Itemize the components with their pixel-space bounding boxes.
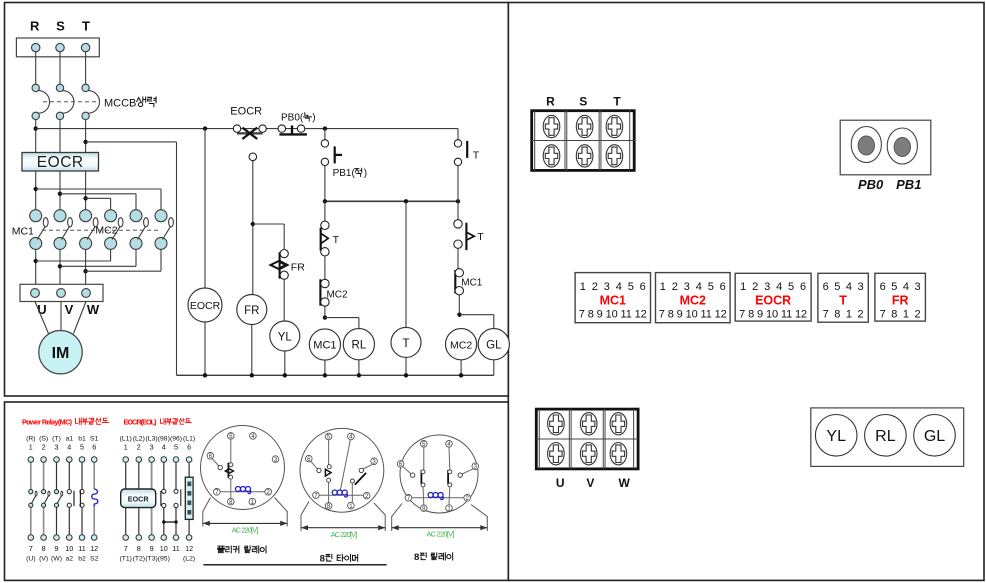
- svg-text:(96): (96): [170, 436, 182, 443]
- svg-text:RL: RL: [352, 340, 367, 352]
- wire: 96/98 common link to pin 10 (95): [164, 521, 176, 523]
- panel frame: main schematic panel (top-left): [5, 3, 509, 397]
- svg-text:6: 6: [187, 443, 191, 452]
- node: junction MC2 coil / GL lamp: [457, 313, 461, 317]
- svg-text:): ): [312, 113, 315, 124]
- terminal block TB2 (U V W motor terminals): [20, 284, 103, 301]
- node: junction at MC2 branch: [456, 199, 460, 203]
- svg-text:S: S: [579, 95, 587, 109]
- MC relay pins and contacts (6 columns): [28, 457, 97, 541]
- node: R-phase tap to control circuit (junction): [34, 126, 38, 130]
- contact 98 a-contact (EOCR): [162, 489, 166, 493]
- node: bus junction RL: [357, 373, 361, 377]
- svg-text:1: 1: [29, 443, 33, 452]
- wire: S tap to MC2 pole 5: [60, 193, 136, 195]
- svg-text:FR: FR: [244, 305, 259, 317]
- pin numbers bottom 7-12 of EOCR: [119, 544, 195, 563]
- svg-text:b2: b2: [78, 556, 86, 563]
- svg-text:(W): (W): [51, 556, 62, 563]
- svg-text:EOCR: EOCR: [755, 294, 791, 308]
- node: bus junction EOCR: [203, 373, 207, 377]
- svg-text:MC1: MC1: [313, 340, 336, 352]
- coil FR (flicker relay coil): [237, 295, 267, 325]
- node: junction FR / YL branch: [251, 222, 255, 226]
- wire R phase: TB1 to MCCB: [35, 52, 37, 84]
- node: junction at T coil branch: [404, 199, 408, 203]
- wire S phase: TB1 to MCCB: [59, 52, 61, 84]
- svg-text:MC1: MC1: [12, 226, 34, 238]
- svg-text:4: 4: [162, 443, 166, 452]
- svg-text:8: 8: [42, 544, 46, 553]
- svg-text:V: V: [586, 476, 594, 490]
- node: S tap for MC2 (junction): [58, 192, 62, 196]
- wire MC2 coil to bus: [460, 360, 462, 376]
- wire T coil to bus: [405, 357, 407, 375]
- contact 96 b-contact (EOCR): [174, 489, 178, 493]
- svg-text:3: 3: [150, 443, 154, 452]
- svg-text:12: 12: [90, 544, 98, 553]
- svg-text:RL: RL: [875, 428, 896, 445]
- wire: control top rail: [36, 128, 458, 130]
- svg-text:EOCR: EOCR: [37, 154, 84, 171]
- svg-text:YL: YL: [278, 331, 293, 343]
- node: MC2 pole6 return to W (junction): [83, 269, 87, 273]
- node: bus junction MC1: [323, 373, 327, 377]
- coil T (timer coil): [391, 327, 421, 357]
- wire R phase: EOCR to MC contacts: [35, 171, 37, 210]
- wire: MC2 pole5 bottom to V line: [135, 249, 137, 266]
- wire U to motor: [35, 302, 49, 334]
- wire T phase: MC1 to UVW block: [85, 249, 87, 284]
- svg-text:S: S: [56, 19, 65, 34]
- svg-text:9: 9: [55, 544, 59, 553]
- terminal block TB1 (R S T source terminals): [16, 38, 99, 57]
- svg-text:(S): (S): [39, 436, 48, 443]
- induction motor IM: [39, 331, 82, 374]
- EOCR body box (gradient): [121, 489, 156, 508]
- pin numbering block T: [818, 273, 868, 322]
- svg-text:U: U: [556, 476, 565, 490]
- overcurrent relay EOCR (power block): [22, 153, 99, 172]
- wire T phase: TB1 to MCCB: [85, 52, 87, 84]
- svg-text:(L3): (L3): [146, 436, 158, 443]
- terminal block U V W (photo style): [536, 409, 638, 469]
- svg-text:EOCR(EOL): EOCR(EOL): [124, 417, 158, 426]
- svg-text:(U): (U): [26, 556, 35, 563]
- svg-text:T: T: [477, 231, 484, 243]
- wire S phase: MC1 to UVW block: [59, 249, 61, 284]
- coil EOCR (relay coil): [188, 288, 222, 322]
- svg-text:1 2 3 4 5 6: 1 2 3 4 5 6: [580, 281, 646, 293]
- svg-text:Power Relay(MC): Power Relay(MC): [22, 417, 73, 426]
- pin labels top (R)(S)(T) a1 b1 S1: [26, 436, 98, 452]
- wire: branch to GL lamp: [460, 314, 494, 316]
- svg-text:4: 4: [67, 443, 71, 452]
- svg-text:EOCR: EOCR: [230, 106, 262, 118]
- svg-text:1: 1: [124, 443, 128, 452]
- wire MC1 coil to bus: [324, 360, 326, 375]
- svg-text:MC1: MC1: [461, 278, 483, 289]
- flicker relay socket diagram: [201, 426, 288, 527]
- wire: control bottom bus: [177, 374, 494, 376]
- pin numbering block MC1: [575, 273, 650, 323]
- svg-text:10: 10: [160, 544, 168, 553]
- wire V to motor: [60, 302, 62, 331]
- circuit breaker MCCB (3 poles, omitted): [32, 84, 100, 119]
- node: MC2 pole4 return to U (junction): [34, 259, 38, 263]
- svg-text:PB0: PB0: [858, 177, 884, 192]
- node: rail junction to PB1 branch: [323, 126, 327, 130]
- svg-text:11: 11: [172, 544, 179, 553]
- pin numbering block FR: [875, 273, 926, 321]
- svg-text:): ): [364, 168, 367, 179]
- wire R phase: MCCB to EOCR box: [35, 120, 37, 153]
- contact EOCR b-contact (trip, with X mark): [233, 125, 266, 139]
- svg-text:(L2): (L2): [183, 556, 195, 563]
- contact FR flasher contact: [271, 250, 289, 322]
- wire: self-hold node line: [325, 200, 458, 202]
- svg-text:8: 8: [414, 552, 419, 563]
- pilot box on L1-L2 column (EOCR): [185, 477, 193, 519]
- node: junction MC1 coil / RL lamp: [323, 315, 327, 319]
- pin numbers bottom 7-12 of MC relay: [26, 544, 98, 563]
- pushbutton box PB0 PB1: [840, 120, 931, 175]
- svg-text:(98): (98): [158, 436, 170, 443]
- svg-text:S1: S1: [90, 436, 99, 443]
- pin numbering block EOCR: [735, 273, 811, 321]
- svg-text:(T2): (T2): [133, 556, 145, 563]
- lamp RL (red lamp): [343, 329, 374, 360]
- svg-text:(L1): (L1): [183, 436, 195, 443]
- svg-text:(V): (V): [39, 556, 48, 563]
- svg-text:T: T: [333, 234, 340, 246]
- lamp YL (yellow lamp): [270, 321, 300, 351]
- svg-text:EOCR: EOCR: [128, 495, 150, 504]
- wire T phase: MCCB to EOCR box: [85, 120, 87, 153]
- svg-text:5: 5: [174, 443, 178, 452]
- wire: T-phase feed to control bottom bus: [86, 141, 177, 143]
- wire: MC2 pole6 bottom to W line: [160, 249, 162, 271]
- svg-text:(L1): (L1): [120, 436, 132, 443]
- svg-text:R: R: [30, 19, 40, 34]
- svg-text:11: 11: [78, 544, 85, 553]
- contactor MC1 main contacts (3 poles): [30, 210, 98, 250]
- svg-text:PB0(: PB0(: [281, 113, 304, 124]
- panel frame: component layout panel (right): [508, 3, 984, 581]
- svg-text:12: 12: [185, 544, 193, 553]
- wire FR coil to bus: [251, 325, 253, 376]
- svg-text:AC 220[V]: AC 220[V]: [331, 530, 358, 539]
- label 플리커 릴레이: [218, 546, 225, 553]
- wire S phase: EOCR to MC contacts: [59, 171, 61, 210]
- node: T tap for MC2 (junction): [83, 196, 87, 200]
- svg-text:1 2 3 4 5 6: 1 2 3 4 5 6: [660, 281, 726, 293]
- svg-text:MC2: MC2: [450, 340, 472, 352]
- wire: YL branch from FR node: [253, 223, 284, 225]
- wire: FR coil branch: [252, 161, 254, 295]
- underline below socket labels: [203, 564, 386, 566]
- wire T phase: EOCR to MC contacts: [85, 171, 87, 210]
- svg-text:5: 5: [80, 443, 84, 452]
- coil MC1 (contactor coil): [309, 329, 340, 360]
- svg-text:GL: GL: [924, 428, 945, 445]
- svg-text:(T1): (T1): [119, 556, 131, 563]
- node: EOCR coil tap (junction): [203, 126, 207, 130]
- svg-text:2: 2: [137, 443, 141, 452]
- svg-text:IM: IM: [52, 345, 70, 362]
- wire: EOCR coil branch: [204, 129, 206, 288]
- svg-text:(T): (T): [52, 436, 61, 443]
- wire YL to bus: [284, 351, 286, 375]
- svg-text:7: 7: [29, 544, 33, 553]
- contactor MC2 main contacts (3 poles): [105, 210, 174, 250]
- svg-text:AC 220[V]: AC 220[V]: [427, 529, 455, 538]
- svg-text:(T3): (T3): [145, 556, 157, 563]
- contact T timed a-contact (MC1 branch): [321, 201, 329, 256]
- svg-text:10: 10: [65, 544, 73, 553]
- svg-text:V: V: [65, 302, 74, 317]
- wire W to motor: [74, 302, 87, 334]
- coil S1-S2 (blue) of MC relay: [92, 489, 98, 507]
- wire EOCR coil to bus: [204, 322, 206, 375]
- wire: branch to RL lamp: [325, 317, 359, 319]
- svg-text:9: 9: [150, 544, 154, 553]
- svg-text:7 8 9 10 11 12: 7 8 9 10 11 12: [739, 309, 807, 321]
- wire S phase: MCCB to EOCR box: [59, 120, 61, 153]
- svg-text:MC1: MC1: [600, 294, 626, 308]
- svg-text:GL: GL: [486, 340, 502, 352]
- svg-text:PB1(: PB1(: [333, 168, 356, 179]
- pin numbering block MC2: [656, 273, 731, 323]
- wire: rail corner down to T contact (right branch): [457, 129, 459, 140]
- svg-text:MC2: MC2: [326, 290, 348, 301]
- svg-text:8: 8: [137, 544, 141, 553]
- node: junction at MC1 branch: [323, 199, 327, 203]
- lamp panel YL RL GL: [811, 408, 964, 467]
- svg-text:6: 6: [92, 443, 96, 452]
- wire RL to bus: [358, 360, 360, 376]
- svg-text:S2: S2: [90, 556, 99, 563]
- terminal: FR branch tap: [249, 153, 257, 161]
- svg-text:1 2 3 4 5 6: 1 2 3 4 5 6: [740, 281, 806, 293]
- svg-text:8: 8: [320, 553, 325, 564]
- node: bus junction FR: [250, 373, 254, 377]
- svg-text:MC2: MC2: [680, 294, 706, 308]
- panel frame: internal wiring panel (bottom-left): [5, 402, 509, 580]
- svg-text:AC 220[V]: AC 220[V]: [232, 525, 259, 534]
- svg-text:T: T: [473, 150, 480, 162]
- svg-text:7: 7: [124, 544, 128, 553]
- svg-text:(95): (95): [158, 556, 170, 563]
- contact T timed a-contact (MC2 branch): [454, 201, 474, 268]
- 8-pin timer socket diagram: [300, 428, 385, 531]
- svg-text:T: T: [613, 95, 621, 109]
- wire: MC2 pole4 bottom to U line: [110, 249, 112, 261]
- wire R phase: MC1 to UVW block: [35, 249, 37, 284]
- lamp GL (green lamp): [478, 329, 509, 360]
- svg-text:b1: b1: [78, 436, 86, 443]
- pushbutton PB0 normally-closed: [278, 125, 307, 134]
- node: R tap for MC2 (junction): [34, 187, 38, 191]
- svg-text:7 8 9 10 11 12: 7 8 9 10 11 12: [579, 309, 647, 321]
- pin labels top (L1)(L2)(L3)(98)(96)(L1): [120, 436, 195, 452]
- wire: R tap to MC2 pole 6: [36, 188, 161, 190]
- EOCR relay pins and wiring (6 columns): [123, 457, 192, 541]
- svg-text:a1: a1: [66, 436, 74, 443]
- svg-text:W: W: [619, 476, 631, 490]
- terminal block R S T (photo style): [532, 111, 635, 171]
- node: T-phase tap to control circuit (junction): [83, 140, 87, 144]
- svg-text:7 8 9 10 11 12: 7 8 9 10 11 12: [659, 309, 727, 321]
- svg-text:FR: FR: [291, 262, 305, 274]
- svg-text:MCCB: MCCB: [104, 97, 136, 109]
- 8-pin relay socket diagram: [392, 435, 488, 531]
- contact MC2 interlock b-contact: [320, 256, 329, 318]
- svg-text:W: W: [87, 302, 100, 317]
- node: bus junction T: [404, 373, 408, 377]
- svg-text:2: 2: [42, 443, 46, 452]
- pushbutton PB1 normally-open: [321, 129, 342, 202]
- contact MC1 interlock a-contact: [455, 269, 463, 315]
- svg-text:a2: a2: [66, 556, 74, 563]
- wire: T coil branch: [405, 201, 407, 327]
- svg-text:T: T: [82, 19, 90, 34]
- contact T instantaneous a-contact (right branch top): [454, 140, 467, 202]
- svg-text:PB1: PB1: [896, 177, 921, 192]
- wire GL to bus: [493, 360, 495, 376]
- mechanical linkage (dashed): [42, 229, 158, 231]
- svg-text:T: T: [402, 338, 409, 350]
- svg-text:EOCR: EOCR: [190, 300, 221, 312]
- svg-text:T: T: [839, 294, 847, 308]
- svg-text:(R): (R): [26, 436, 35, 443]
- svg-text:3: 3: [55, 443, 59, 452]
- svg-text:FR: FR: [892, 294, 909, 308]
- svg-text:R: R: [546, 95, 555, 109]
- node: MC2 pole5 return to V (junction): [58, 264, 62, 268]
- wire: T tap to MC2 pole 4: [86, 197, 111, 199]
- node: bus junction YL: [283, 373, 287, 377]
- coil MC2 (contactor coil): [446, 329, 477, 360]
- svg-text:(L2): (L2): [133, 436, 145, 443]
- svg-text:YL: YL: [826, 428, 846, 445]
- node: bus junction MC2: [459, 373, 463, 377]
